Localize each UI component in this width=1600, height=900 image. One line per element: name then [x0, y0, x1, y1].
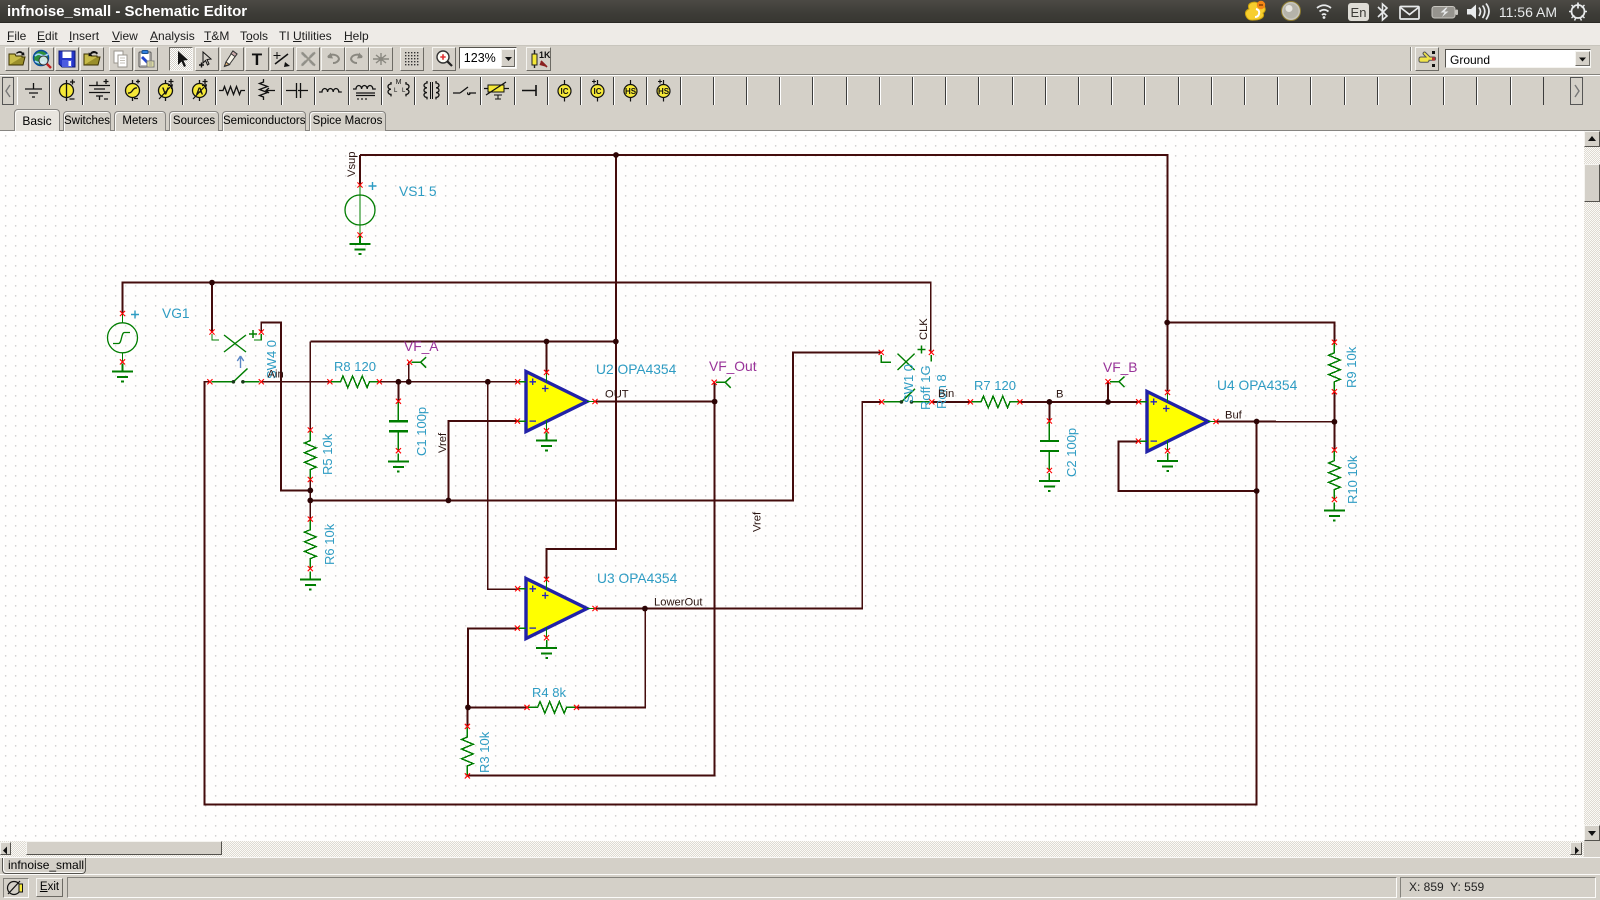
resistor R4 [524, 702, 579, 714]
svg-text:1K: 1K [539, 50, 551, 60]
wire R7 to U4 non-inverting input [1019, 401, 1137, 403]
ground of VS1 [350, 236, 371, 254]
switch SW1 [879, 346, 935, 405]
resistor R6 [305, 517, 317, 572]
svg-text:IC: IC [594, 87, 602, 96]
svg-text:Vsup: Vsup [346, 152, 358, 178]
wire OUT to VF_Out [714, 382, 716, 401]
junction SW4-R5 node [307, 488, 313, 494]
svg-text:M: M [395, 79, 401, 86]
junction top rail [613, 152, 619, 158]
junction VF_B tap [1105, 399, 1111, 405]
wire Buf feedback loop [205, 382, 1257, 805]
op-amp U3 [515, 577, 598, 641]
svg-text:Buf: Buf [1225, 410, 1243, 422]
resistor R7 [968, 396, 1023, 408]
voltage pin VF_B [1105, 377, 1124, 388]
junction U2 supply tap [544, 339, 550, 345]
svg-text:U2 OPA4354: U2 OPA4354 [596, 362, 677, 377]
wire U4 output Buf [1217, 421, 1335, 423]
svg-text:VF_Out: VF_Out [709, 359, 757, 374]
ground of C2 [1039, 473, 1060, 491]
svg-text:VF_B: VF_B [1103, 360, 1138, 375]
svg-text:Ain: Ain [268, 369, 284, 381]
voltage pin VF_Out [712, 377, 731, 388]
wire SW4 right to Vref node [261, 323, 310, 491]
svg-text:OUT: OUT [605, 389, 629, 401]
wire U2 output OUT [596, 401, 715, 403]
junction VG1 node [209, 280, 215, 286]
junction R9 branch [1164, 320, 1170, 326]
wire VS1 top stub [359, 155, 361, 185]
svg-text:Roff 1G: Roff 1G [918, 365, 933, 410]
junction mid rail [613, 339, 619, 345]
wire to C1 [397, 382, 399, 401]
wire supply mid rail [310, 341, 616, 343]
wire to U3 non-inverting input [488, 382, 518, 589]
svg-text:En: En [1351, 5, 1367, 20]
wire to VF_B [1107, 382, 1109, 402]
svg-text:R7 120: R7 120 [974, 378, 1016, 393]
ground of C1 [388, 454, 409, 472]
svg-text:Vref: Vref [752, 511, 764, 532]
wire rail drop to U3 supply [547, 155, 616, 579]
junction R3-R4 node [465, 705, 471, 711]
junction U3 input tap [485, 379, 491, 385]
svg-text:Bin: Bin [938, 388, 954, 400]
wire node to R4 [468, 706, 527, 708]
svg-text:R6 10k: R6 10k [322, 523, 337, 565]
svg-text:CLK: CLK [918, 318, 930, 340]
voltage source VS1 [345, 182, 377, 238]
svg-text:U4 OPA4354: U4 OPA4354 [1217, 378, 1298, 393]
wire VG1 to SW1 clock [123, 283, 931, 353]
svg-text:R4 8k: R4 8k [532, 685, 566, 700]
wire rail branch to R9 [1167, 323, 1335, 343]
junction Vref feedback tap [446, 498, 452, 504]
svg-text:R8 120: R8 120 [334, 359, 376, 374]
junction Vref divider node [307, 498, 313, 504]
wire Vref line to SW1 input [310, 352, 881, 500]
svg-text:LowerOut: LowerOut [654, 597, 703, 609]
svg-text:L: L [402, 88, 406, 94]
svg-text:R10 10k: R10 10k [1345, 455, 1360, 504]
svg-text:HS: HS [625, 87, 637, 96]
wire to C2 [1048, 402, 1050, 421]
svg-text:C2 100p: C2 100p [1064, 428, 1079, 477]
switch SW4 [207, 329, 264, 384]
ground of R10 [1324, 503, 1345, 521]
svg-text:B: B [1056, 389, 1063, 401]
wire to R3 top [466, 707, 468, 726]
wire R9 to R10 [1333, 392, 1335, 450]
junction U4 feedback node [1254, 488, 1260, 494]
wire Vref to U2 inverting input [448, 421, 517, 500]
wire SW1 to R7 [932, 401, 971, 403]
wire drop to U2 supply [546, 342, 548, 373]
svg-text:VS1 5: VS1 5 [399, 184, 437, 199]
svg-text:SW1 0: SW1 0 [901, 364, 916, 403]
svg-text:R9 10k: R9 10k [1344, 346, 1359, 388]
wire to VF_A [408, 362, 410, 382]
svg-text:R3 10k: R3 10k [477, 731, 492, 773]
wire R5 bottom to R6 top [309, 479, 311, 519]
wire OUT down to R3 [467, 402, 714, 776]
ground of R6 [300, 571, 321, 589]
capacitor C2 [1040, 418, 1059, 473]
junction R9-R10 node [1332, 419, 1338, 425]
resistor R8 [327, 376, 382, 388]
ground of U3 [536, 640, 557, 658]
junction VF_A tap [406, 379, 412, 385]
wire R8 to U2 non-inverting input [379, 381, 517, 383]
ground of VG1 [112, 364, 133, 382]
svg-text:VG1: VG1 [162, 306, 190, 321]
svg-text:C1 100p: C1 100p [414, 407, 429, 456]
junction LowerOut node [642, 606, 648, 612]
resistor R9 [1329, 340, 1341, 395]
wire U4 feedback [1119, 442, 1257, 492]
voltage pin VF_A [407, 357, 426, 368]
svg-text:L: L [394, 88, 398, 94]
wire VG1 node to SW4 control [211, 283, 213, 332]
op-amp U4 [1136, 390, 1219, 454]
svg-text:IC: IC [560, 87, 568, 96]
junction OUT node [712, 399, 718, 405]
resistor R5 [305, 427, 317, 482]
wire to U3 inverting input [468, 628, 517, 707]
voltage generator VG1 [108, 311, 140, 365]
wire drop to R5 [309, 342, 311, 432]
junction C1 tap [396, 379, 402, 385]
svg-text:R5 10k: R5 10k [320, 433, 335, 475]
wire Ain to R8 [261, 381, 329, 383]
junction Buf node [1254, 419, 1260, 425]
svg-text:HS: HS [658, 87, 670, 96]
svg-text:U3 OPA4354: U3 OPA4354 [597, 571, 678, 586]
ground of U2 [536, 433, 557, 451]
svg-text:T: T [252, 50, 263, 69]
wire Vsup top rail to U4 supply [360, 155, 1168, 391]
resistor R10 [1329, 447, 1341, 502]
svg-text:Vref: Vref [437, 432, 449, 453]
resistor R3 [462, 724, 474, 779]
junction C2 tap [1047, 399, 1053, 405]
ground of U4 [1157, 453, 1178, 471]
wire LowerOut to SW1 [596, 402, 882, 609]
wire R4 to LowerOut [577, 609, 646, 708]
svg-text:VF_A: VF_A [404, 339, 439, 354]
capacitor C1 [389, 399, 408, 454]
op-amp U2 [515, 370, 598, 434]
